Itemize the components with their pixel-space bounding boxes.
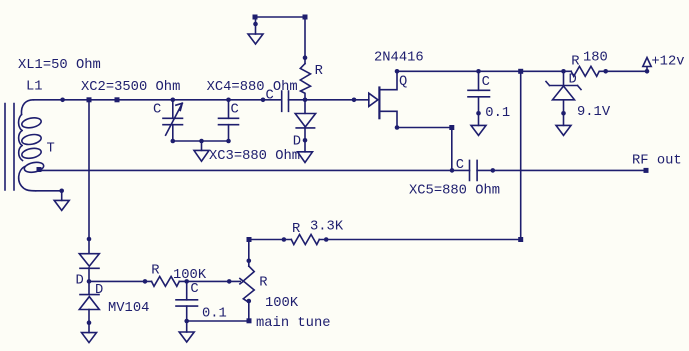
- junction dot below tune cap: [184, 319, 189, 324]
- diode D (gate clamp) stem: [304, 100, 306, 114]
- capacitor C (fixed tank), stem top: [228, 100, 230, 119]
- wire source to output node: [397, 127, 452, 129]
- resistor R 180: [571, 66, 647, 76]
- node square on rail x=89: [87, 97, 92, 102]
- svg-text:180: 180: [583, 51, 608, 66]
- svg-text:Q: Q: [399, 75, 407, 90]
- wire between varactors: [88, 268, 90, 295]
- junction dot XC5 right: [491, 168, 496, 173]
- capacitor XC2 plates: [163, 118, 183, 124]
- junction dot on rail x=172.8 (variable cap): [171, 98, 176, 103]
- node square pot bottom: [247, 318, 252, 323]
- node square coil tap: [37, 167, 42, 172]
- wire ground stem top-left: [255, 17, 257, 34]
- power +12v symbol: [643, 58, 651, 72]
- junction dot on rail x=228.5 (fixed cap): [226, 98, 231, 103]
- ground (tank caps): [194, 150, 209, 161]
- svg-text:XC5=880 Ohm: XC5=880 Ohm: [409, 183, 500, 199]
- wire pot bottom lead: [248, 302, 250, 320]
- varactor top cathode bar: [80, 267, 99, 269]
- junction dot bypass cap top: [476, 69, 481, 74]
- junction dot on rail x=263: [261, 98, 266, 103]
- diode D varactor top triangle: [79, 254, 99, 267]
- junction dot drain: [395, 69, 400, 74]
- capacitor XC2 stem bottom: [172, 125, 174, 141]
- ground (gate diode): [298, 152, 313, 163]
- junction dot XC5 left: [450, 168, 455, 173]
- svg-text:0.1: 0.1: [485, 106, 510, 121]
- svg-text:T: T: [47, 142, 55, 157]
- wire XC5 to RF out: [477, 169, 646, 171]
- svg-text:0.1: 0.1: [202, 307, 227, 322]
- svg-text:XC4=880 Ohm: XC4=880 Ohm: [207, 79, 298, 95]
- potentiometer wiper arrow: [240, 279, 244, 284]
- node square right end of top jog: [303, 15, 308, 20]
- node square left end of top jog: [253, 15, 258, 20]
- wire stem tank ground: [201, 141, 203, 150]
- wire stem coil-bottom ground: [61, 191, 63, 201]
- svg-text:XC3=880 Ohm: XC3=880 Ohm: [209, 148, 300, 164]
- transistor drain lead: [379, 71, 397, 89]
- capacitor C 0.1 tune stem: [186, 281, 188, 299]
- junction dot varactor center: [87, 279, 92, 284]
- svg-text:R: R: [571, 54, 579, 69]
- junction dot tank bottom mid: [199, 139, 204, 144]
- wire tank top to varactors: [88, 100, 90, 253]
- wire pot top lead: [248, 240, 250, 267]
- svg-text:+12v: +12v: [651, 55, 684, 70]
- junction dot tank bottom right: [226, 139, 231, 144]
- svg-text:100K: 100K: [265, 296, 299, 311]
- wire coil bottom to ground: [36, 190, 62, 192]
- transformer T core lines: [5, 104, 14, 191]
- capacitor C XC5 plates: [470, 160, 478, 180]
- svg-text:9.1V: 9.1V: [577, 105, 611, 120]
- diode D cathode bar: [296, 127, 314, 129]
- wire pot top to R 3.3K: [249, 239, 291, 241]
- capacitor C fixed stem bottom: [228, 125, 230, 141]
- transistor Q1 2N4416 JFET gate arrow: [369, 93, 378, 106]
- junction dot below diode D: [303, 138, 308, 143]
- junction dot on ground stem: [253, 22, 258, 27]
- junction dot on wiper wire: [227, 279, 232, 284]
- diode D triangle: [295, 114, 315, 127]
- wire R100K to wiper arrow: [179, 280, 240, 282]
- junction dot below zener: [561, 111, 566, 116]
- wire diode D to ground: [304, 128, 306, 152]
- zener cathode bar with ticks: [546, 82, 581, 90]
- junction dot above resistor R: [303, 55, 308, 60]
- capacitor C 0.1 lower stem: [478, 97, 480, 126]
- svg-text:R: R: [292, 222, 300, 237]
- svg-text:100K: 100K: [173, 268, 207, 283]
- svg-text:R: R: [259, 276, 267, 291]
- svg-text:R: R: [315, 64, 323, 79]
- svg-text:3.3K: 3.3K: [310, 219, 344, 234]
- inductor L1 coil winding: [21, 100, 33, 115]
- wire R3.3K to 9V rail: [319, 239, 520, 241]
- potentiometer R 100K vertical: [243, 266, 254, 302]
- capacitor C 0.1 tune plates: [176, 300, 198, 306]
- junction dot on rail x=62.6: [60, 98, 65, 103]
- svg-text:C: C: [482, 75, 490, 90]
- wire varactor node to R 100K: [89, 280, 152, 282]
- junction dot +12v node: [645, 69, 650, 74]
- wire drain rail: [397, 70, 571, 72]
- wire tank caps bottom: [173, 140, 229, 142]
- resistor R 3.3K: [291, 235, 319, 245]
- svg-text:C: C: [456, 158, 464, 173]
- svg-text:MV104: MV104: [108, 301, 149, 316]
- junction dot above varactor: [87, 237, 92, 242]
- wire source corner down to tap line: [451, 128, 453, 171]
- wire zener to ground: [563, 100, 565, 126]
- svg-text:XL1=50 Ohm: XL1=50 Ohm: [18, 57, 101, 73]
- svg-text:XC2=3500 Ohm: XC2=3500 Ohm: [81, 79, 180, 95]
- node square at 9V rail bottom: [518, 237, 523, 242]
- ground (tune cap): [179, 332, 194, 342]
- junction dot below varactors: [87, 320, 92, 325]
- junction dot gate wire x=354: [352, 98, 357, 103]
- junction dot coil bottom: [59, 189, 64, 194]
- varactor bottom cathode bar: [80, 294, 99, 296]
- svg-text:D: D: [76, 273, 84, 288]
- wire tune cap to pot bottom: [187, 320, 249, 322]
- svg-text:D: D: [293, 134, 301, 149]
- node square on rail x=117: [115, 97, 120, 102]
- ground (zener): [556, 125, 571, 135]
- svg-text:RF out: RF out: [632, 154, 682, 169]
- wire top jog between gate resistor R and ground: [255, 16, 305, 18]
- wire from top jog down to resistor R: [304, 17, 306, 64]
- junction dot at tune cap top: [184, 279, 189, 284]
- wire main top rail (right part after capacitor C): [289, 99, 369, 101]
- zener triangle: [553, 86, 575, 100]
- svg-text:C: C: [266, 88, 274, 103]
- node square rail x=520.7: [518, 69, 523, 74]
- svg-text:C: C: [231, 103, 239, 118]
- capacitor C 0.1 plates: [468, 90, 490, 97]
- svg-text:R: R: [151, 264, 159, 279]
- diode D zener 9.1V stem: [563, 71, 565, 86]
- node square RF out: [644, 168, 649, 173]
- junction dot left of R3.3K: [282, 237, 287, 242]
- junction dot right of R180: [603, 69, 608, 74]
- svg-text:D: D: [569, 73, 577, 88]
- svg-text:D: D: [95, 283, 103, 298]
- wire long tap line (coil tap to XC5): [39, 169, 470, 171]
- capacitor C 0.1 tune lower stem: [186, 306, 188, 332]
- junction dot tank bottom left: [171, 139, 176, 144]
- capacitor C 0.1 bypass stem: [478, 71, 480, 90]
- svg-text:L1: L1: [26, 79, 43, 94]
- junction dot right of R3.3K: [324, 237, 329, 242]
- svg-text:2N4416: 2N4416: [374, 51, 424, 66]
- junction dot pot bottom: [247, 299, 252, 304]
- wire varactor bottom to ground: [88, 310, 90, 333]
- node square pot top: [247, 237, 252, 242]
- junction dot pot top: [247, 259, 252, 264]
- capacitor C fixed plates: [219, 118, 239, 124]
- transistor source lead: [379, 111, 397, 127]
- junction dot left of R100K: [143, 279, 148, 284]
- diode D varactor bottom triangle: [79, 297, 99, 310]
- svg-text:C: C: [190, 282, 198, 297]
- wire main top rail (tank to gate, left part): [34, 99, 282, 101]
- transistor channel bar: [378, 88, 380, 119]
- capacitor XC2 trimmer arrow: [166, 103, 183, 135]
- node square source corner: [449, 125, 454, 130]
- capacitor C XC4 series plates: [282, 91, 289, 111]
- ground (varactors): [82, 333, 97, 343]
- resistor R (gate leak, vertical): [300, 64, 310, 100]
- junction dot zener top: [561, 69, 566, 74]
- junction dot source: [395, 125, 400, 130]
- junction dot gate node x=305: [303, 98, 308, 103]
- svg-text:C: C: [153, 103, 161, 118]
- ground (top-left): [248, 34, 263, 44]
- capacitor XC2 variable, stem top: [172, 100, 174, 119]
- ground (coil bottom): [54, 200, 69, 210]
- resistor R 100K horizontal: [152, 277, 180, 287]
- junction dot below bypass cap: [476, 111, 481, 116]
- wire 9V rail down to tuning network: [520, 71, 522, 239]
- ground (bypass cap): [471, 125, 486, 135]
- svg-text:main tune: main tune: [256, 315, 331, 331]
